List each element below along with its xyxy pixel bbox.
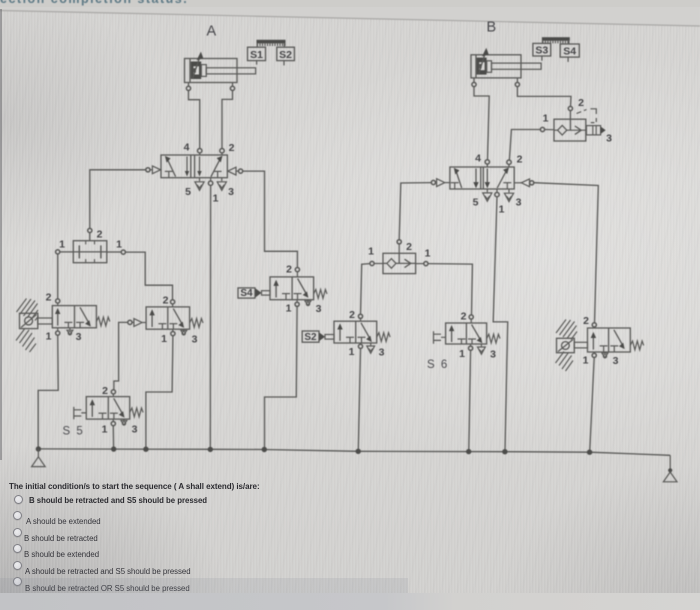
S6 port 1	[470, 344, 472, 346]
wire V1 left pilot to shuttle SV1 port 2	[90, 170, 146, 229]
wire V1 right pilot to S4 port 2	[243, 171, 298, 267]
wire SV1 left to LV port 2	[57, 254, 59, 299]
valve LV 3/2 roller (pressed)	[52, 299, 110, 335]
wire B left port to V2 port 4	[474, 87, 489, 160]
V2 exhaust port 5	[486, 189, 488, 192]
LV port 1	[57, 328, 59, 331]
V2 right pilot	[521, 179, 529, 187]
wire V1 port 1 to supply	[209, 186, 211, 448]
valve S2 3/2 roller	[302, 314, 390, 353]
V1 left pilot	[146, 168, 150, 172]
MV port 3 exhaust	[183, 329, 185, 330]
V1 port labels	[184, 142, 235, 205]
LV port 3 exhaust	[69, 328, 71, 330]
V1 exhaust port 5	[199, 178, 201, 182]
QE labels	[543, 97, 613, 145]
SV1 labels	[59, 229, 122, 251]
supply line	[37, 449, 671, 455]
wire S2 port 2 to AND left	[361, 264, 370, 315]
wire AND right to S6 port 2	[428, 264, 472, 315]
junction node dots	[36, 446, 593, 455]
S6 button actuator	[434, 331, 446, 343]
wire MV pilot to S5 port 2	[114, 322, 128, 389]
valve MV 3/2 pilot	[128, 300, 203, 336]
S4 port 3 exhaust	[307, 300, 309, 301]
wire QE port 1 to V2 port 2	[509, 130, 540, 161]
valve S5 3/2 push button	[74, 390, 143, 426]
S2 label box and plunger	[302, 331, 319, 342]
roller actuator right valve RV2	[557, 338, 588, 352]
wire RV2 port 1 to supply	[590, 358, 594, 450]
valve S4 3/2 roller	[238, 268, 327, 307]
quick exhaust valve QE	[540, 106, 605, 141]
S5 button actuator	[74, 407, 87, 419]
S2 labels	[304, 309, 384, 359]
wire V2 port 1 to supply	[493, 197, 508, 450]
two-pressure valve AND	[370, 240, 428, 274]
S5 labels	[102, 385, 138, 436]
roller actuator left valve LV	[20, 313, 53, 328]
sensor ruler B	[542, 37, 570, 44]
V2 port 1	[496, 189, 498, 192]
valve V1 5/2 under A	[146, 149, 243, 191]
shuttle valve SV1	[56, 228, 126, 262]
V1 right pilot	[228, 167, 236, 175]
V2 exhaust port 3	[508, 189, 510, 193]
S4 label box and plunger	[238, 288, 255, 298]
wire B right port to QE port 2	[517, 87, 571, 107]
wire A right port to V1 port 2	[222, 91, 233, 149]
frame top border line	[0, 11, 700, 27]
sensor S2	[277, 47, 295, 65]
V1 port 1	[210, 178, 212, 181]
valve RV2 3/2 roller (pressed)	[588, 323, 644, 358]
wire S5 port 1 to supply	[112, 426, 114, 448]
S2 port 3 exhaust	[370, 343, 372, 345]
MV port 1	[172, 329, 174, 331]
wire S6 port 1 to supply	[469, 350, 471, 449]
S6 port 3 exhaust	[480, 344, 482, 346]
sensor S4b	[560, 44, 579, 62]
wall hatch right	[556, 320, 578, 372]
wall hatch left	[16, 299, 39, 353]
V1 exhaust port 3	[221, 178, 223, 182]
wire S4 port 1 to supply	[265, 307, 298, 448]
wire A left port to V1 port 4	[189, 91, 200, 149]
MV pilot	[128, 320, 132, 324]
air source left	[32, 449, 46, 467]
S5 port 1	[112, 419, 114, 421]
wire LV port 1 to supply	[38, 335, 58, 447]
LV spring	[96, 317, 109, 326]
S6 labels	[459, 311, 496, 361]
RV2 port 1	[593, 352, 595, 353]
area above frame line	[0, 0, 700, 26]
wire MV port 1 to supply	[146, 336, 173, 448]
wire S2 port 1 to supply	[358, 349, 360, 450]
wire V2 right pilot to RV2 port 2	[534, 183, 598, 323]
wire SV1 right to MV port 2	[126, 252, 173, 300]
cylinder B	[471, 48, 541, 87]
AND labels	[368, 241, 431, 260]
V2 left pilot	[431, 180, 435, 184]
wire AND port 2 to V2 left pilot	[399, 183, 431, 240]
sensor S3	[533, 43, 551, 60]
S4 labels	[240, 264, 321, 316]
LV port 2	[56, 299, 60, 303]
sensor ruler A	[257, 40, 286, 47]
cylinder A	[185, 52, 256, 91]
LV labels	[46, 292, 82, 344]
valve V2 5/2 under B	[431, 160, 534, 202]
RV2 port 3 exhaust	[604, 352, 606, 353]
MV labels	[161, 295, 198, 346]
valve S6 3/2 push button	[434, 315, 501, 354]
sensor S1	[248, 47, 266, 64]
air source right	[663, 455, 677, 482]
S4 port 1	[296, 300, 298, 302]
RV2 port 2	[592, 323, 596, 327]
S2 port 1	[360, 343, 362, 344]
V2 port labels	[473, 153, 523, 216]
RV2 labels	[583, 315, 619, 367]
S5 port 3 exhaust	[123, 419, 125, 420]
